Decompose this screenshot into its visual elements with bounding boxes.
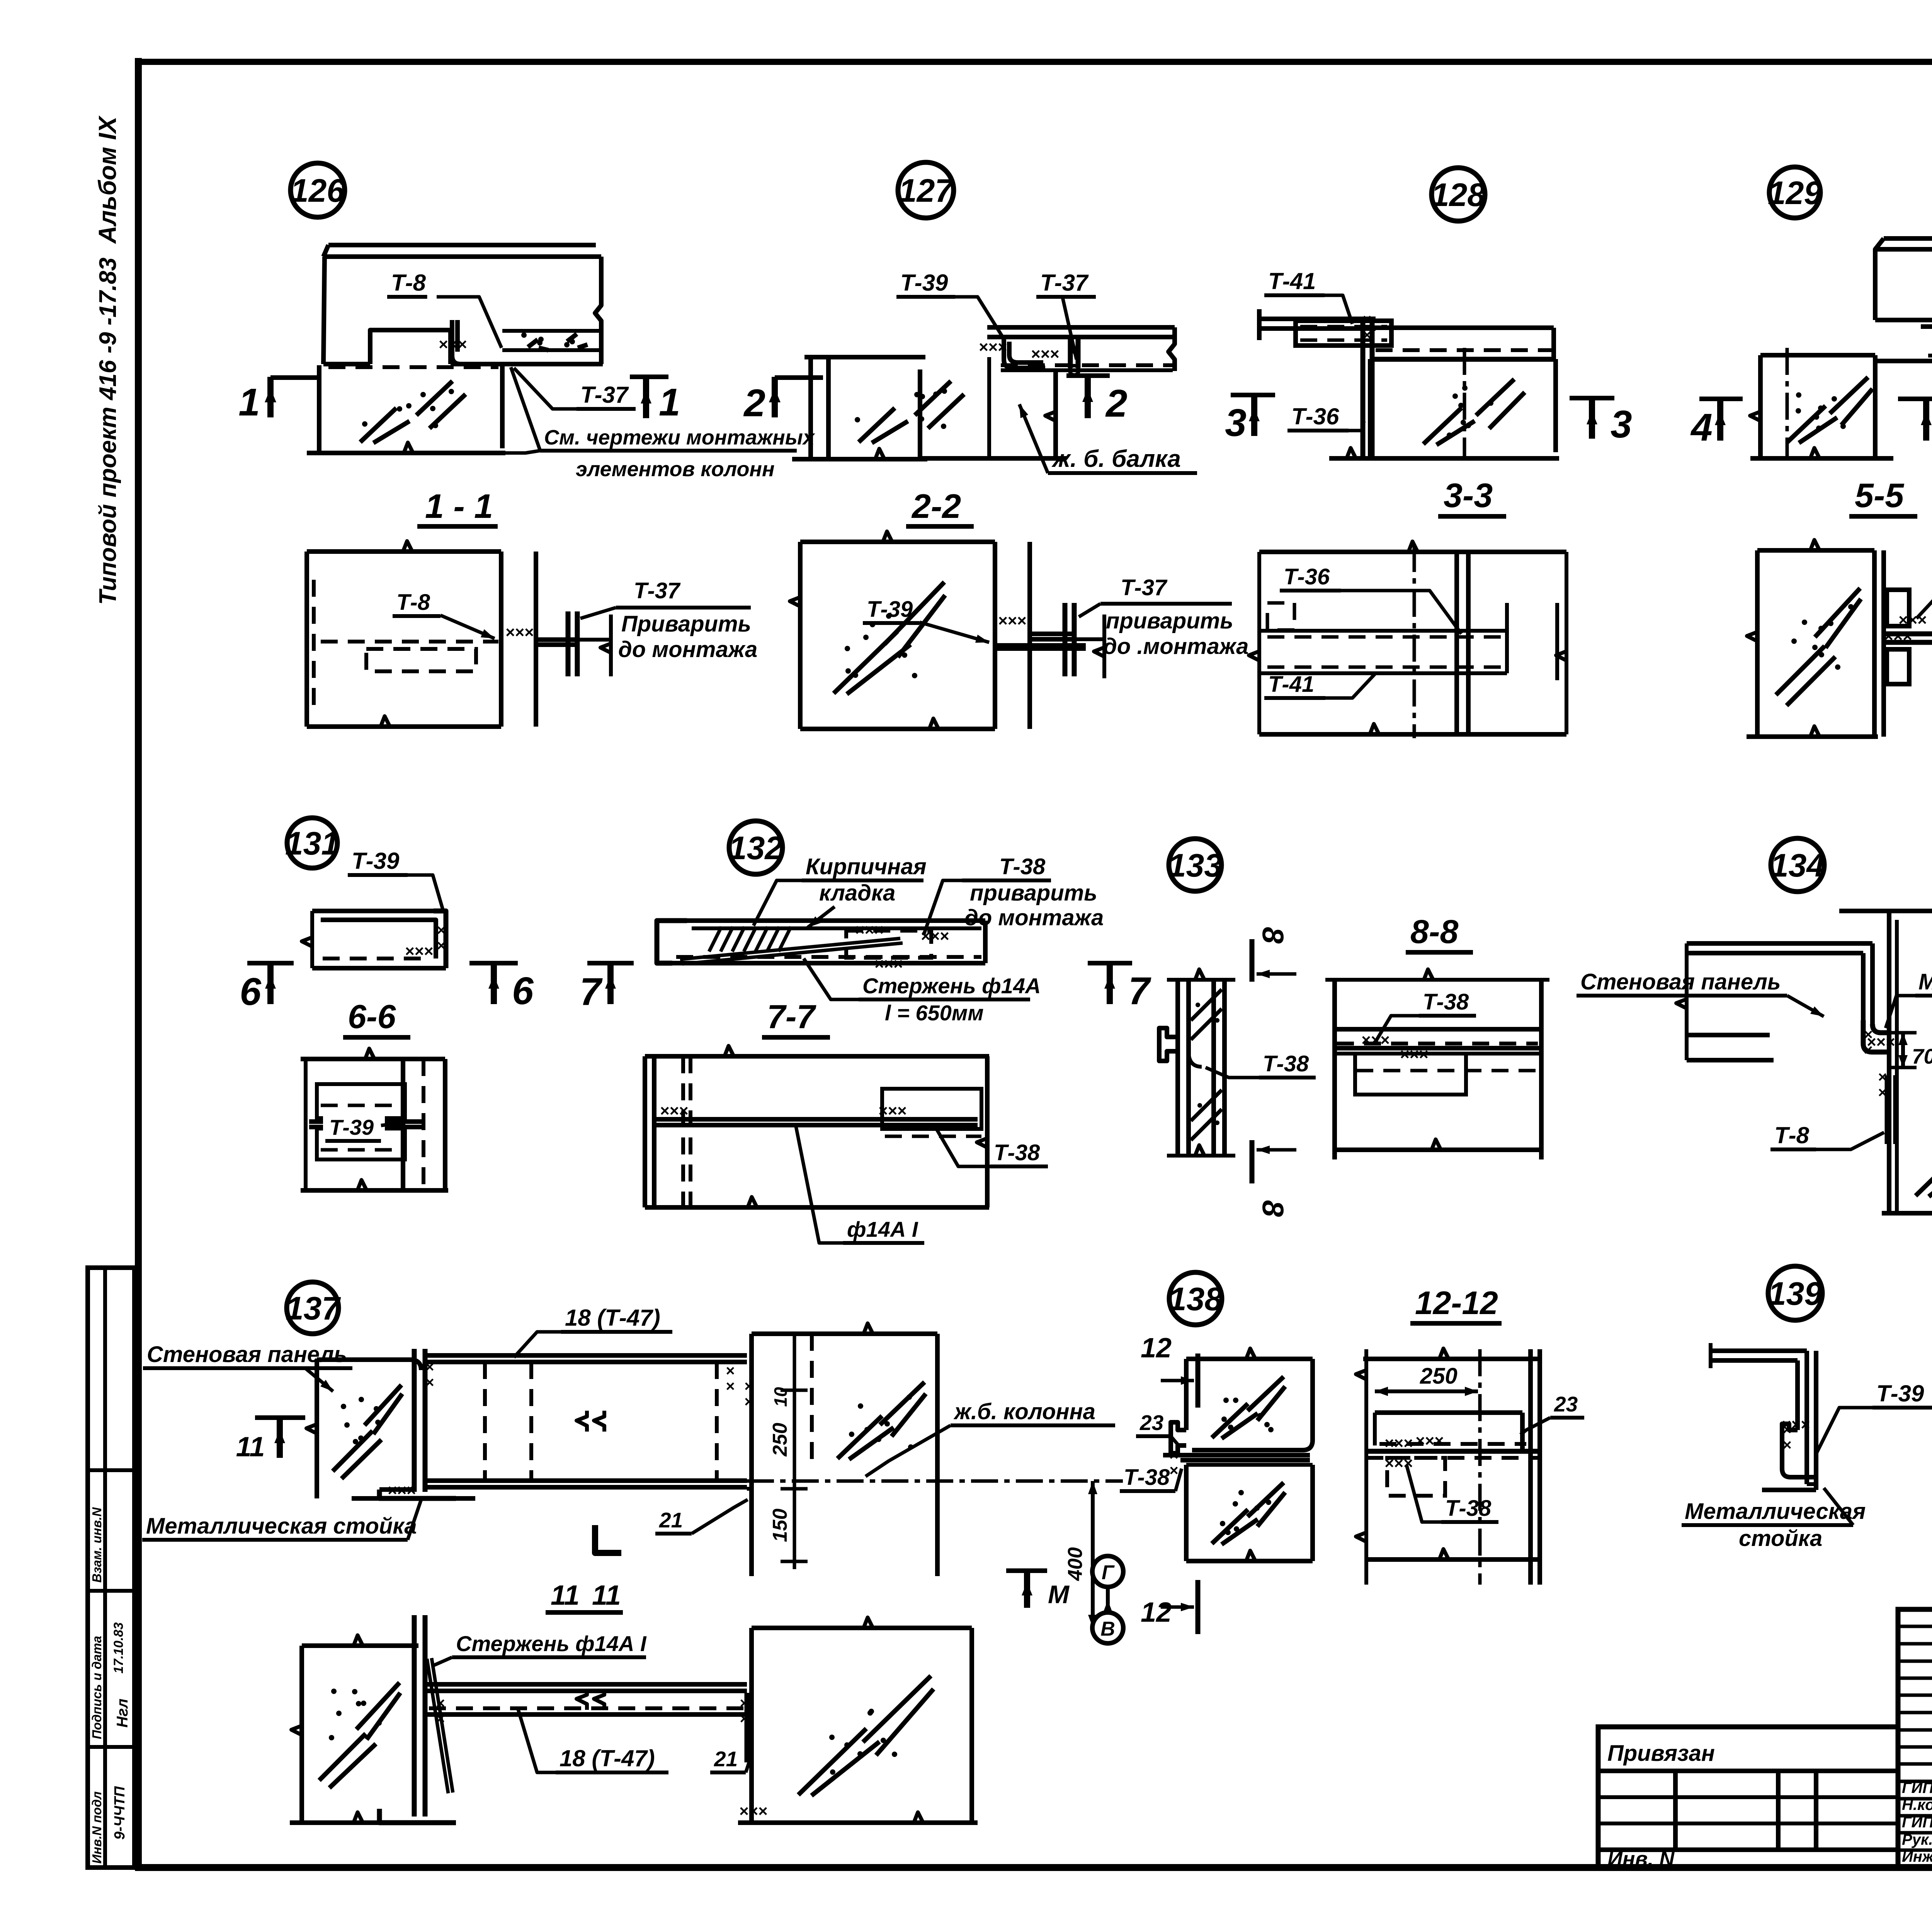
svg-text:131: 131 bbox=[285, 825, 339, 861]
node 127 bracket T-39 bbox=[1004, 337, 1045, 368]
node 131 circle bbox=[287, 818, 337, 868]
svg-text:Т-8: Т-8 bbox=[396, 590, 430, 615]
node 133 circle bbox=[1169, 839, 1221, 891]
node 137 circle bbox=[287, 1282, 338, 1334]
svg-text:Т-38: Т-38 bbox=[1423, 989, 1469, 1015]
svg-text:Металлическая: Металлическая bbox=[1918, 969, 1932, 994]
svg-text:В: В bbox=[1100, 1618, 1115, 1640]
svg-text:Нгл: Нгл bbox=[114, 1699, 131, 1728]
svg-text:2-2: 2-2 bbox=[911, 487, 961, 525]
svg-text:Стеновая панель: Стеновая панель bbox=[1580, 969, 1781, 994]
node 134 column bbox=[1887, 911, 1891, 1213]
node 129 circle bbox=[1769, 167, 1820, 218]
svg-text:Типовой проект 416 -9 -17.83: Типовой проект 416 -9 -17.83 bbox=[95, 257, 121, 605]
section 7-7 rod bbox=[654, 1117, 978, 1122]
svg-text:23: 23 bbox=[1554, 1392, 1578, 1416]
node 137 wall panel bbox=[317, 1357, 410, 1362]
svg-text:12: 12 bbox=[1141, 1333, 1172, 1364]
svg-text:8: 8 bbox=[1256, 1200, 1290, 1217]
svg-text:×: × bbox=[437, 937, 446, 954]
node 128 foundation bbox=[1368, 359, 1372, 458]
node 137 axis bbox=[747, 1479, 1123, 1483]
section 3-3 drawing bbox=[1259, 550, 1566, 554]
svg-text:6: 6 bbox=[512, 969, 534, 1013]
svg-text:Инв. N: Инв. N bbox=[1607, 1847, 1675, 1871]
node 138 section 12 bottom bbox=[1196, 1580, 1201, 1634]
svg-text:Кирпичная: Кирпичная bbox=[806, 854, 927, 879]
svg-text:3: 3 bbox=[1611, 403, 1632, 446]
svg-text:134: 134 bbox=[1770, 847, 1825, 884]
svg-text:250: 250 bbox=[1420, 1364, 1458, 1389]
svg-text:×××: ××× bbox=[388, 1481, 416, 1499]
svg-text:Подпись и дата: Подпись и дата bbox=[90, 1636, 104, 1740]
node 132 rod bbox=[680, 938, 900, 959]
svg-text:ж.б. колонна: ж.б. колонна bbox=[953, 1399, 1095, 1424]
svg-text:М: М bbox=[1048, 1580, 1070, 1609]
node 134 circle bbox=[1771, 838, 1824, 892]
section 5-5 concrete block bbox=[1757, 548, 1874, 553]
node 131 panel bar bbox=[312, 909, 434, 913]
svg-text:7: 7 bbox=[580, 970, 603, 1013]
svg-text:×: × bbox=[1169, 1447, 1178, 1464]
node 132 section 7 left bbox=[587, 961, 634, 965]
section 11-11 right block bbox=[749, 1628, 754, 1823]
svg-text:2: 2 bbox=[1105, 382, 1128, 425]
svg-text:Т-38: Т-38 bbox=[999, 854, 1046, 879]
svg-text:2: 2 bbox=[743, 381, 765, 425]
section 1-1 column strip bbox=[499, 552, 503, 727]
svg-text:×: × bbox=[744, 1378, 753, 1395]
node 127 wall panel bbox=[804, 355, 925, 359]
section 6-6 drawing bbox=[301, 1057, 445, 1061]
svg-text:5-5: 5-5 bbox=[1855, 476, 1904, 514]
svg-text:×: × bbox=[1878, 1084, 1887, 1101]
node 127 beam block bbox=[918, 369, 922, 458]
svg-text:до монтажа: до монтажа bbox=[964, 905, 1104, 930]
svg-text:11: 11 bbox=[236, 1432, 265, 1462]
svg-text:Инв.N подл: Инв.N подл bbox=[90, 1791, 104, 1864]
section 6-6 label T-39 bbox=[323, 1110, 385, 1138]
svg-text:12-12: 12-12 bbox=[1415, 1285, 1498, 1321]
node 132 section 7 right bbox=[1088, 961, 1132, 965]
svg-text:1 - 1: 1 - 1 bbox=[425, 487, 493, 525]
svg-text:18 (Т-47): 18 (Т-47) bbox=[565, 1305, 660, 1331]
svg-text:Т-38: Т-38 bbox=[1445, 1496, 1492, 1521]
node 128 section 3 right bbox=[1570, 396, 1614, 400]
svg-text:×××: ××× bbox=[660, 1102, 689, 1120]
node 128 post bbox=[1361, 319, 1366, 456]
section 5-5 column strip bbox=[1872, 550, 1877, 737]
svg-text:×××: ××× bbox=[405, 942, 434, 960]
section 2-2 wall bbox=[800, 540, 995, 544]
node 126 section mark 1 right bbox=[630, 375, 668, 379]
svg-text:Стержень ф14А I: Стержень ф14А I bbox=[456, 1631, 647, 1656]
svg-text:18 (Т-47): 18 (Т-47) bbox=[560, 1745, 655, 1771]
section 5-5 bar bbox=[1884, 632, 1932, 637]
node 128 circle bbox=[1432, 168, 1485, 221]
svg-text:до .монтажа: до .монтажа bbox=[1103, 634, 1248, 659]
node 132 channel bbox=[657, 921, 687, 963]
section 5-5 plates bbox=[1887, 590, 1909, 626]
svg-text:×××: ××× bbox=[998, 611, 1027, 630]
svg-text:Привязан: Привязан bbox=[1607, 1741, 1715, 1766]
svg-text:139: 139 bbox=[1768, 1275, 1822, 1312]
node 128 slab right bbox=[1372, 325, 1554, 330]
svg-text:Стеновая панель: Стеновая панель bbox=[147, 1342, 347, 1367]
node 128 plate T-41 bbox=[1296, 321, 1391, 346]
section 12-12 plate bbox=[1375, 1410, 1522, 1415]
node 131 section 6 left bbox=[247, 961, 294, 965]
svg-text:×××: ××× bbox=[874, 955, 903, 973]
svg-text:×××: ××× bbox=[855, 921, 884, 939]
svg-text:Стержень ф14А: Стержень ф14А bbox=[862, 974, 1041, 998]
svg-text:Т-38: Т-38 bbox=[1263, 1051, 1309, 1076]
attachment table bbox=[1598, 1727, 1898, 1868]
svg-text:Металлическая стойка: Металлическая стойка bbox=[146, 1514, 417, 1539]
svg-text:Т-37: Т-37 bbox=[1121, 575, 1168, 600]
svg-text:Т-39: Т-39 bbox=[352, 848, 400, 874]
svg-text:11: 11 bbox=[592, 1580, 621, 1611]
node 137 section 11 left bbox=[255, 1415, 305, 1420]
svg-text:3: 3 bbox=[1225, 401, 1247, 444]
svg-text:Г: Г bbox=[1102, 1561, 1115, 1584]
node 127 beam bbox=[987, 325, 1175, 330]
node 126 foundation bbox=[317, 365, 321, 452]
node 127 plate T-37 bbox=[1068, 337, 1073, 368]
node 133 wall bbox=[1175, 980, 1180, 1156]
node 139 circle bbox=[1768, 1266, 1822, 1320]
node 137 grid bubbles bbox=[1092, 1556, 1123, 1587]
svg-text:×: × bbox=[726, 1362, 735, 1379]
node 139 bracket bbox=[1782, 1424, 1816, 1477]
section 11-11 beam bbox=[425, 1682, 747, 1687]
svg-text:×××: ××× bbox=[1782, 1415, 1810, 1433]
svg-text:×: × bbox=[1169, 1462, 1178, 1479]
node 128 left beam bbox=[1259, 317, 1376, 321]
svg-text:ф14А I: ф14А I bbox=[847, 1217, 918, 1241]
svg-text:6: 6 bbox=[240, 970, 262, 1013]
svg-text:×: × bbox=[740, 1710, 748, 1727]
node 138 circle bbox=[1169, 1272, 1222, 1325]
svg-text:×××: ××× bbox=[505, 623, 534, 641]
node 126 circle bbox=[291, 163, 345, 217]
svg-text:Т-38: Т-38 bbox=[994, 1140, 1040, 1165]
section 1-1 wall bbox=[307, 549, 501, 554]
svg-text:Рук. гр.: Рук. гр. bbox=[1902, 1831, 1932, 1848]
svg-text:ГИП: ГИП bbox=[1902, 1779, 1932, 1796]
svg-text:Взам. инв.N: Взам. инв.N bbox=[90, 1507, 104, 1583]
svg-text:×××: ××× bbox=[1384, 1434, 1413, 1452]
title block frame bbox=[1898, 1609, 1932, 1868]
node 137 stand bbox=[412, 1349, 417, 1492]
svg-text:4: 4 bbox=[1690, 406, 1713, 449]
node 138 joint bbox=[1171, 1422, 1186, 1453]
svg-text:Т-36: Т-36 bbox=[1291, 403, 1339, 429]
svg-text:8: 8 bbox=[1256, 927, 1290, 944]
svg-text:Приварить: Приварить bbox=[621, 611, 751, 637]
svg-text:3-3: 3-3 bbox=[1444, 476, 1493, 514]
node 134 bracket bbox=[1872, 1024, 1889, 1033]
svg-text:Н.контр.: Н.контр. bbox=[1902, 1796, 1932, 1813]
svg-text:133: 133 bbox=[1168, 847, 1222, 884]
svg-text:Т-39: Т-39 bbox=[329, 1115, 374, 1139]
svg-text:128: 128 bbox=[1431, 177, 1485, 213]
svg-text:17.10.83: 17.10.83 bbox=[111, 1622, 126, 1674]
svg-text:Т-41: Т-41 bbox=[1268, 268, 1316, 294]
section 12-12 dim 250 bbox=[1375, 1389, 1478, 1393]
svg-text:23: 23 bbox=[1139, 1411, 1163, 1435]
node 137 section M right bbox=[1006, 1568, 1047, 1573]
node 126 angle T-8 bbox=[452, 320, 501, 364]
section 2-2 column strip bbox=[993, 542, 997, 729]
svg-text:кладка: кладка bbox=[819, 880, 895, 906]
svg-text:ГИП: ГИП bbox=[1902, 1814, 1932, 1831]
svg-text:70: 70 bbox=[1912, 1044, 1932, 1068]
node 129 beam lines bbox=[1921, 324, 1932, 329]
svg-text:1: 1 bbox=[659, 381, 680, 424]
svg-text:Т-39: Т-39 bbox=[867, 597, 913, 622]
svg-text:Металлическая: Металлическая bbox=[1685, 1499, 1866, 1524]
svg-text:7: 7 bbox=[1128, 969, 1151, 1013]
node 132 brick hatch bbox=[709, 927, 721, 952]
svg-text:Т-38: Т-38 bbox=[1124, 1465, 1170, 1490]
svg-text:21: 21 bbox=[714, 1747, 738, 1771]
node 139 drawing bbox=[1711, 1348, 1807, 1353]
svg-text:×××: ××× bbox=[1867, 1033, 1895, 1051]
svg-text:Т-37: Т-37 bbox=[1040, 270, 1089, 296]
section 11-11 left panel bbox=[302, 1643, 418, 1648]
svg-text:×××: ××× bbox=[1400, 1045, 1429, 1063]
svg-text:Т-41: Т-41 bbox=[1268, 672, 1314, 697]
svg-text:См. чертежи монтажных: См. чертежи монтажных bbox=[544, 426, 815, 449]
section 8-8 drawing bbox=[1332, 980, 1337, 1159]
svg-text:8-8: 8-8 bbox=[1410, 913, 1458, 950]
svg-text:12: 12 bbox=[1141, 1597, 1172, 1628]
svg-text:Инж.: Инж. bbox=[1902, 1848, 1932, 1865]
svg-text:×: × bbox=[1782, 1437, 1791, 1454]
svg-text:×××: ××× bbox=[1898, 611, 1927, 629]
node 132 circle bbox=[729, 821, 782, 874]
node 126 section mark 1 left bbox=[267, 377, 274, 417]
svg-text:Т-37: Т-37 bbox=[580, 382, 629, 408]
node 133 section 8 bottom bbox=[1250, 1140, 1255, 1183]
node 134 wall panel bbox=[1687, 941, 1872, 946]
svg-text:7-7: 7-7 bbox=[767, 998, 816, 1035]
svg-text:Т-8: Т-8 bbox=[1774, 1122, 1810, 1148]
svg-text:×: × bbox=[744, 1393, 753, 1410]
svg-text:129: 129 bbox=[1768, 175, 1822, 211]
svg-text:до монтажа: до монтажа bbox=[618, 637, 757, 662]
svg-text:×××: ××× bbox=[439, 335, 467, 353]
svg-text:стойка: стойка bbox=[1739, 1526, 1822, 1551]
svg-text:21: 21 bbox=[659, 1508, 683, 1532]
svg-text:×: × bbox=[425, 1374, 434, 1391]
section 7-7 recess bbox=[882, 1089, 981, 1129]
sheet frame bbox=[135, 58, 142, 1871]
node 129 section 4 right bbox=[1898, 397, 1932, 401]
node 138 lower panel bbox=[1186, 1463, 1313, 1467]
svg-text:×××: ××× bbox=[739, 1802, 768, 1820]
svg-text:×××: ××× bbox=[1415, 1432, 1444, 1450]
node 129 wall panel bbox=[1884, 236, 1932, 241]
svg-text:127: 127 bbox=[899, 172, 954, 209]
node 134 lower plate T-8 bbox=[1885, 1075, 1890, 1144]
section 12-12 bottom bbox=[1366, 1557, 1540, 1562]
title block left grid bbox=[1898, 1625, 1932, 1628]
section 11-11 stand bbox=[412, 1615, 417, 1817]
svg-text:11: 11 bbox=[551, 1580, 580, 1611]
svg-text:×: × bbox=[726, 1378, 735, 1395]
svg-text:Т-36: Т-36 bbox=[1284, 564, 1330, 589]
node 127 section 2 right bbox=[1066, 373, 1110, 378]
svg-text:×: × bbox=[1878, 1069, 1887, 1086]
section 7-7 drawing bbox=[645, 1054, 989, 1059]
node 137 beam bbox=[425, 1353, 747, 1358]
svg-text:132: 132 bbox=[729, 830, 783, 866]
node 131 end angle bbox=[434, 911, 446, 968]
svg-text:l = 650мм: l = 650мм bbox=[885, 1001, 984, 1025]
svg-text:Т-39: Т-39 bbox=[1876, 1381, 1924, 1406]
svg-text:Т-8: Т-8 bbox=[391, 270, 426, 296]
section 2-2 anchor bbox=[1030, 632, 1074, 636]
svg-text:137: 137 bbox=[286, 1290, 341, 1326]
node 128 section 3 left bbox=[1231, 393, 1275, 397]
svg-text:Т-37: Т-37 bbox=[634, 578, 681, 603]
node 126 beam strip bbox=[502, 329, 601, 333]
node 132 plate T-38 bbox=[846, 931, 931, 958]
svg-text:250: 250 bbox=[769, 1423, 791, 1457]
node 138 upper panel bbox=[1186, 1357, 1313, 1361]
svg-text:×: × bbox=[437, 922, 446, 939]
node 126 slab bbox=[328, 243, 596, 247]
svg-text:элементов колонн: элементов колонн bbox=[576, 458, 775, 481]
node 127 circle bbox=[898, 162, 954, 218]
svg-text:400: 400 bbox=[1064, 1547, 1087, 1581]
svg-text:6-6: 6-6 bbox=[348, 998, 396, 1035]
svg-text:126: 126 bbox=[291, 172, 345, 209]
svg-text:приварить: приварить bbox=[1106, 608, 1233, 633]
svg-text:ж. б. балка: ж. б. балка bbox=[1051, 446, 1181, 472]
svg-text:Т-39: Т-39 bbox=[900, 270, 948, 296]
svg-text:×××: ××× bbox=[1031, 345, 1060, 363]
node 137 L mark bbox=[595, 1525, 621, 1553]
node 129 foundation bbox=[1758, 355, 1763, 458]
node 133 clip bbox=[1159, 1028, 1178, 1061]
left margin stamp boxes bbox=[88, 1268, 134, 1868]
svg-text:×: × bbox=[740, 1695, 748, 1712]
svg-text:1: 1 bbox=[238, 381, 260, 424]
node 129 section 4 left bbox=[1699, 397, 1743, 401]
section 12-12 drawing bbox=[1364, 1349, 1368, 1585]
node 127 section 2 left bbox=[772, 377, 778, 417]
node 137 column block bbox=[749, 1334, 754, 1576]
svg-text:Альбом IХ: Альбом IХ bbox=[94, 115, 121, 244]
svg-text:150: 150 bbox=[769, 1508, 791, 1542]
node 131 section 6 right bbox=[469, 961, 518, 965]
svg-text:9-ЧЧТП: 9-ЧЧТП bbox=[112, 1786, 128, 1840]
section 1-1 anchor plate bbox=[536, 637, 580, 642]
svg-text:приварить: приварить bbox=[970, 880, 1097, 906]
svg-text:138: 138 bbox=[1168, 1281, 1223, 1317]
